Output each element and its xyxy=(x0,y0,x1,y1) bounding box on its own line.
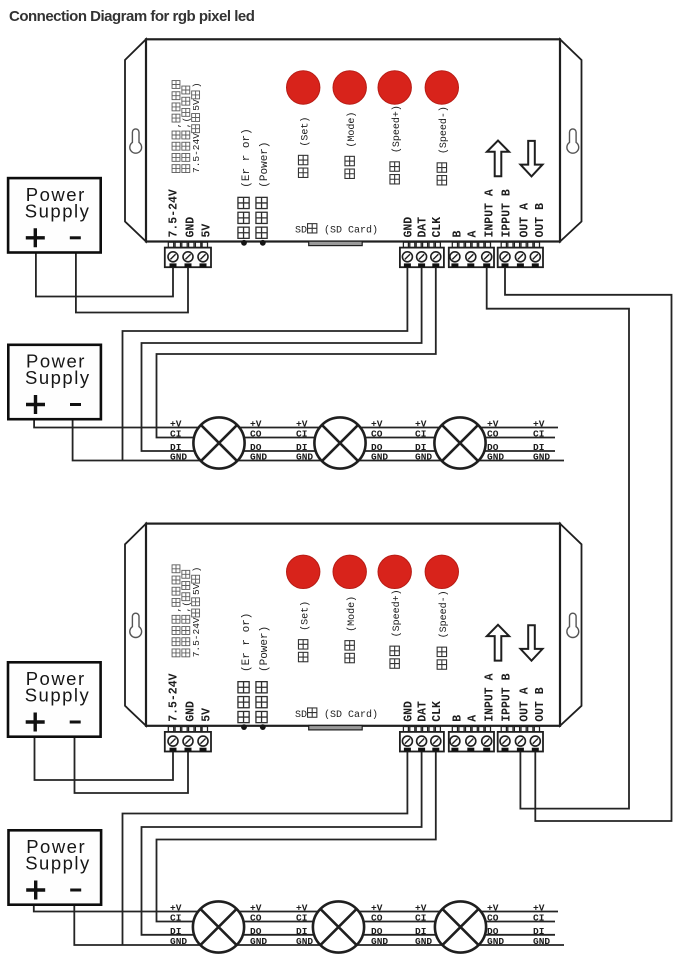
controller U2 left keyhole xyxy=(130,613,142,637)
wire PS1+ to U1 7.5-24V xyxy=(36,254,173,297)
U2 note line 3 xyxy=(191,567,202,658)
pixel row 1 out labels at x=371 xyxy=(371,419,388,463)
pixel row 1 in labels at x=170 xyxy=(170,419,187,463)
svg-text:GND: GND xyxy=(371,452,388,463)
svg-text:(Speed-): (Speed-) xyxy=(438,590,450,644)
wire U1 DAT to row1 DI line xyxy=(142,267,556,451)
svg-text:GND: GND xyxy=(250,936,267,947)
svg-text:): ) xyxy=(191,82,202,88)
svg-text:Supply: Supply xyxy=(25,853,91,874)
wire U1 GND to row1 GND xyxy=(123,267,408,460)
PS3 minus terminal xyxy=(70,721,81,724)
pixel row 2 in labels at x=415 xyxy=(415,903,432,948)
controller U2 red button 1 (save) xyxy=(287,555,320,588)
wire U1 CLK to row1 CI line xyxy=(157,267,556,437)
wire PS3+ to U2 7.5-24V xyxy=(35,738,174,781)
svg-text:CLK: CLK xyxy=(431,217,444,238)
LED pixel P11 xyxy=(193,417,244,468)
controller U1 body xyxy=(146,39,560,241)
svg-text:GND: GND xyxy=(185,701,198,722)
U2 button label save (Set) button xyxy=(298,601,311,662)
svg-text:GND: GND xyxy=(296,936,313,947)
svg-text:A: A xyxy=(467,231,480,238)
svg-text:(SD Card): (SD Card) xyxy=(318,709,378,721)
PS2 minus terminal xyxy=(70,403,81,406)
controller U2 SD card slot xyxy=(309,726,363,730)
wire U2 GND to row2 GND xyxy=(123,751,408,945)
svg-text:CLK: CLK xyxy=(431,701,444,722)
svg-text:Supply: Supply xyxy=(25,367,91,388)
PS2 plus terminal xyxy=(26,395,45,414)
svg-text:CI: CI xyxy=(533,913,544,924)
PS3 plus terminal xyxy=(26,713,45,732)
svg-text:7.5-24V: 7.5-24V xyxy=(191,617,202,657)
wire row1 GND line from PS2- xyxy=(73,421,564,461)
controller U1 up arrow xyxy=(487,141,509,177)
svg-text:GND: GND xyxy=(487,452,504,463)
wire U2 OUT A to U1 INPUT A xyxy=(487,267,629,808)
terminal block U1 GND/DAT/CLK xyxy=(400,242,444,267)
controller U1 right keyhole xyxy=(567,129,579,153)
terminal block U2 power (7.5-24V GND 5V) xyxy=(165,727,211,752)
svg-text:CI: CI xyxy=(296,913,307,924)
wire row2 GND line from PS4- xyxy=(74,906,564,946)
svg-text:GND: GND xyxy=(533,452,550,463)
wire row2 +V line from PS4+ xyxy=(34,906,558,912)
controller U1 red button 3 (speed+) xyxy=(378,71,411,104)
power supply PS2 xyxy=(8,345,101,419)
terminal block U2 IPPUT-B/OUT-A/OUT-B xyxy=(498,727,543,752)
svg-text:B: B xyxy=(451,231,464,238)
svg-text:IPPUT B: IPPUT B xyxy=(501,189,514,237)
svg-text:(Power): (Power) xyxy=(259,141,271,194)
svg-text:,(: ,( xyxy=(181,117,192,128)
controller U1 red button 4 (speed-) xyxy=(425,71,458,104)
controller U1 left mounting flange xyxy=(125,39,146,241)
svg-text:(Mode): (Mode) xyxy=(346,112,358,154)
U1 SD card label xyxy=(295,224,378,237)
controller U2 right mounting flange xyxy=(560,524,582,726)
svg-text:IPPUT B: IPPUT B xyxy=(501,673,514,721)
svg-text:OUT A: OUT A xyxy=(519,687,532,722)
svg-text:OUT B: OUT B xyxy=(534,687,547,722)
svg-text:CO: CO xyxy=(487,429,499,440)
svg-text:Supply: Supply xyxy=(25,200,91,221)
svg-text:GND: GND xyxy=(170,452,187,463)
svg-text:GND: GND xyxy=(296,452,313,463)
controller U1 red button 2 (mode) xyxy=(333,71,366,104)
svg-text:CI: CI xyxy=(170,913,181,924)
controller U1 SD card slot xyxy=(309,241,363,245)
U1 note line 1 xyxy=(171,81,182,173)
controller U1 down arrow xyxy=(521,141,543,177)
terminal block U1 power (7.5-24V GND 5V) xyxy=(165,242,211,267)
U1 button label mode (Mode) button xyxy=(345,112,358,179)
pixel row 2 in labels at x=296 xyxy=(296,903,313,948)
power supply PS1 xyxy=(8,178,101,252)
controller U2 red button 2 (mode) xyxy=(333,555,366,588)
svg-text:Supply: Supply xyxy=(25,685,91,706)
svg-text:): ) xyxy=(191,567,202,573)
U1 note line 3 xyxy=(191,82,202,173)
controller U1 left keyhole xyxy=(130,129,142,153)
svg-text:(Set): (Set) xyxy=(299,601,311,637)
controller U1 power LED dot xyxy=(260,240,266,246)
pixel row 1 in labels at x=415 xyxy=(415,419,432,463)
svg-text:(Set): (Set) xyxy=(299,117,311,153)
pixel row 1 out labels at x=487 xyxy=(487,419,504,463)
controller U2 left mounting flange xyxy=(125,524,146,726)
U1 button label save (Set) button xyxy=(298,117,311,178)
pixel row 1 out labels at x=250 xyxy=(250,419,267,463)
svg-text:Connection Diagram for rgb pix: Connection Diagram for rgb pixel led xyxy=(9,8,255,25)
svg-text:INPUT A: INPUT A xyxy=(483,673,496,721)
svg-text:GND: GND xyxy=(403,217,416,238)
U2 button label speed+ button xyxy=(390,589,403,668)
svg-text:GND: GND xyxy=(170,936,187,947)
svg-text:GND: GND xyxy=(487,936,504,947)
PS1 plus terminal xyxy=(26,228,45,247)
controller U2 red button 4 (speed-) xyxy=(425,555,458,588)
svg-text:SD: SD xyxy=(295,226,307,237)
svg-text:5V: 5V xyxy=(191,99,202,111)
wire U2 DAT to row2 DI line xyxy=(142,751,556,934)
svg-text:GND: GND xyxy=(415,936,432,947)
power supply PS3 xyxy=(8,662,101,736)
svg-text:CI: CI xyxy=(170,429,181,440)
svg-text:GND: GND xyxy=(415,452,432,463)
svg-text:B: B xyxy=(451,715,464,722)
svg-text:OUT B: OUT B xyxy=(534,203,547,238)
LED pixel P13 xyxy=(434,417,485,468)
svg-text:(Speed+): (Speed+) xyxy=(391,589,403,643)
U2 power LED label xyxy=(256,626,271,723)
terminal block U1 IPPUT-B/OUT-A/OUT-B xyxy=(498,242,543,267)
svg-text:GND: GND xyxy=(371,936,388,947)
pixel row 2 in labels at x=170 xyxy=(170,903,187,948)
pixel row 2 in labels at x=533 xyxy=(533,903,550,948)
wire U2 CLK to row2 CI line xyxy=(157,751,556,921)
controller U1 red button 1 (save) xyxy=(287,71,320,104)
controller U2 power LED dot xyxy=(260,724,266,730)
svg-text:(Speed+): (Speed+) xyxy=(391,105,403,159)
svg-text:CO: CO xyxy=(250,913,262,924)
pixel row 2 out labels at x=487 xyxy=(487,903,504,948)
svg-text:(Er r or): (Er r or) xyxy=(241,128,253,194)
U2 note line 1 xyxy=(171,565,182,657)
pixel row 2 out labels at x=371 xyxy=(371,903,388,948)
U2 button label speed- button xyxy=(437,590,450,669)
svg-text:DAT: DAT xyxy=(417,217,430,238)
LED pixel P21 xyxy=(193,901,244,952)
svg-text:A: A xyxy=(467,715,480,722)
svg-text:5V: 5V xyxy=(200,708,213,722)
svg-text:GND: GND xyxy=(250,452,267,463)
svg-text:SD: SD xyxy=(295,710,307,721)
svg-text:GND: GND xyxy=(533,936,550,947)
svg-text:CI: CI xyxy=(415,913,426,924)
U1 note line 2 xyxy=(181,86,192,172)
svg-text:(Speed-): (Speed-) xyxy=(438,106,450,160)
wire PS3- to U2 GND xyxy=(75,738,189,794)
terminal block U1 B/A/INPUT-A xyxy=(449,242,494,267)
svg-text:INPUT A: INPUT A xyxy=(483,189,496,237)
controller U2 error LED dot xyxy=(241,724,247,730)
wire U2 OUT B to U1 IPPUT B xyxy=(505,267,672,821)
svg-text:OUT A: OUT A xyxy=(519,203,532,238)
U2 error LED label xyxy=(238,613,253,723)
svg-text:CI: CI xyxy=(296,429,307,440)
U2 note line 2 xyxy=(181,570,192,656)
controller U1 error LED dot xyxy=(241,240,247,246)
U2 SD card label xyxy=(295,708,378,721)
controller U2 down arrow xyxy=(521,625,543,661)
LED pixel P22 xyxy=(313,901,364,952)
U1 power LED label xyxy=(256,141,271,238)
svg-text:CO: CO xyxy=(371,429,383,440)
svg-text:5V: 5V xyxy=(191,583,202,595)
PS1 minus terminal xyxy=(70,236,81,239)
terminal block U2 GND/DAT/CLK xyxy=(400,727,444,752)
svg-text:,(: ,( xyxy=(181,601,192,612)
svg-text:GND: GND xyxy=(185,217,198,238)
U2 button label mode (Mode) button xyxy=(345,596,358,663)
pixel row 2 out labels at x=250 xyxy=(250,903,267,948)
controller U1 right mounting flange xyxy=(560,39,582,241)
svg-text:GND: GND xyxy=(403,701,416,722)
svg-text:CI: CI xyxy=(533,429,544,440)
controller U2 up arrow xyxy=(487,625,509,661)
PS4 plus terminal xyxy=(26,881,45,900)
svg-text:(Power): (Power) xyxy=(259,626,271,679)
wire row1 +V line from PS2+ xyxy=(34,421,558,428)
svg-text:CO: CO xyxy=(250,429,262,440)
U1 error LED label xyxy=(238,128,253,238)
controller U2 red button 3 (speed+) xyxy=(378,555,411,588)
pixel row 1 in labels at x=296 xyxy=(296,419,313,463)
controller U2 right keyhole xyxy=(567,613,579,637)
U1 button label speed- button xyxy=(437,106,450,185)
svg-text:DAT: DAT xyxy=(417,701,430,722)
U1 button label speed+ button xyxy=(390,105,403,184)
terminal block U2 B/A/INPUT-A xyxy=(449,727,494,752)
LED pixel P23 xyxy=(435,901,486,952)
svg-text:(Mode): (Mode) xyxy=(346,596,358,638)
pixel row 1 in labels at x=533 xyxy=(533,419,550,463)
svg-text:(Er r or): (Er r or) xyxy=(241,613,253,679)
svg-text:CO: CO xyxy=(371,913,383,924)
svg-text:7.5-24V: 7.5-24V xyxy=(168,189,181,237)
PS4 minus terminal xyxy=(70,889,81,892)
svg-text:5V: 5V xyxy=(200,224,213,238)
svg-text:7.5-24V: 7.5-24V xyxy=(168,673,181,721)
svg-text:CI: CI xyxy=(415,429,426,440)
power supply PS4 xyxy=(9,830,102,904)
svg-text:7.5-24V: 7.5-24V xyxy=(191,133,202,173)
LED pixel P12 xyxy=(314,417,365,468)
svg-text:(SD Card): (SD Card) xyxy=(318,225,378,237)
controller U2 body xyxy=(146,524,560,726)
wire PS1- to U1 GND xyxy=(76,254,188,313)
svg-text:CO: CO xyxy=(487,913,499,924)
